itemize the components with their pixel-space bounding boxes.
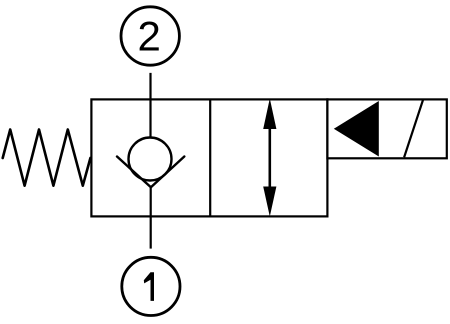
svg-text:2: 2 xyxy=(138,13,161,60)
